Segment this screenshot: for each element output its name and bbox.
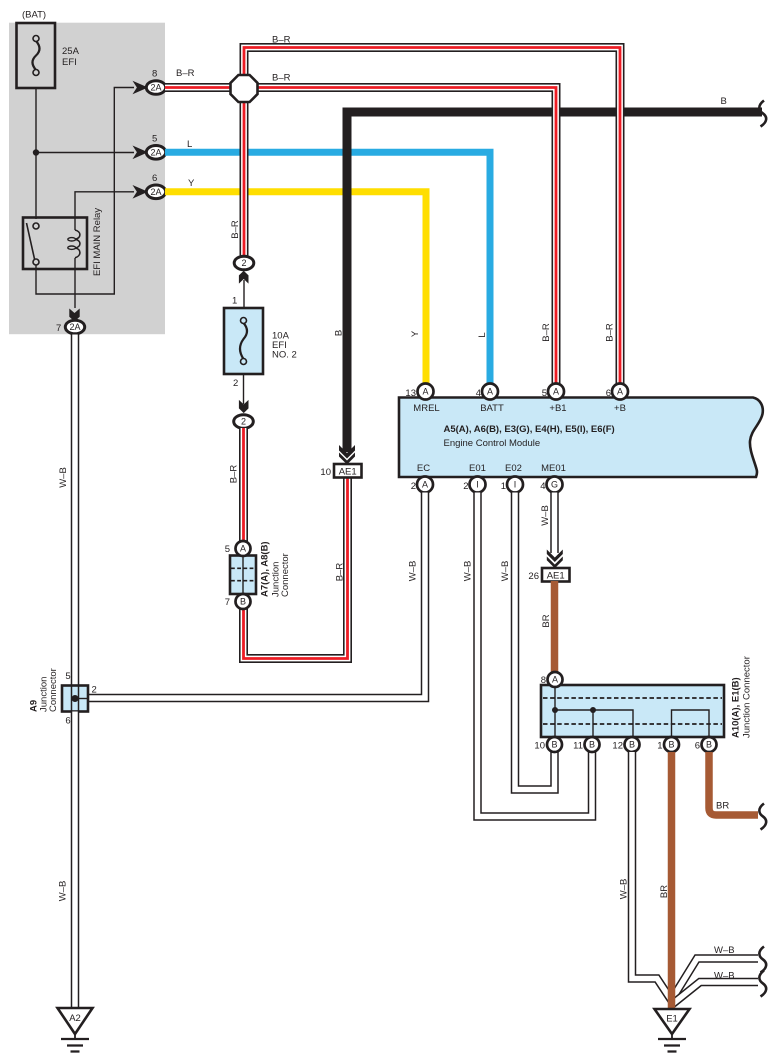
junction connector A9 bbox=[29, 668, 97, 726]
svg-text:2A: 2A bbox=[150, 147, 161, 157]
svg-text:B: B bbox=[240, 597, 246, 607]
svg-text:6: 6 bbox=[65, 716, 70, 727]
pin 6(B) bbox=[695, 737, 717, 752]
wire B black bbox=[347, 112, 762, 452]
svg-text:Connector: Connector bbox=[48, 668, 59, 712]
ECM box Engine Control Module bbox=[399, 398, 763, 478]
connector 2A pin 5 bbox=[133, 134, 166, 160]
svg-text:Engine Control Module: Engine Control Module bbox=[444, 438, 541, 449]
wire B-R junction A7 loop to AE1 bbox=[244, 477, 348, 659]
svg-text:BR: BR bbox=[659, 885, 670, 898]
svg-text:L: L bbox=[187, 139, 192, 150]
svg-text:B: B bbox=[334, 330, 345, 336]
pin 1(I) E02 bbox=[501, 477, 523, 493]
pin 2(A) EC bbox=[411, 477, 433, 493]
svg-text:Connector: Connector bbox=[280, 553, 291, 597]
svg-text:2: 2 bbox=[241, 417, 246, 427]
svg-text:BATT: BATT bbox=[480, 403, 504, 414]
label Y vertical bbox=[410, 330, 421, 337]
label B-R vertical +B1 bbox=[541, 323, 552, 342]
label W-B left upper bbox=[58, 467, 69, 488]
svg-text:A2: A2 bbox=[69, 1013, 81, 1024]
fuse 10A EFI NO. 2 bbox=[224, 308, 297, 374]
label B horizontal bbox=[721, 96, 727, 107]
svg-text:B: B bbox=[706, 740, 712, 750]
label B-R pin8 bbox=[176, 68, 195, 79]
ground A2 bbox=[58, 1008, 93, 1052]
svg-text:11: 11 bbox=[573, 741, 583, 752]
svg-text:B–R: B–R bbox=[229, 465, 240, 484]
label BR AE1 bbox=[541, 614, 552, 627]
wire BR pin 6 to right bbox=[709, 752, 758, 815]
connector AE1 pin 10 bbox=[320, 445, 361, 478]
squiggle W-B lower end bbox=[759, 971, 766, 997]
label W-B E01 bbox=[463, 561, 474, 582]
connector AE1 pin 26 bbox=[528, 550, 569, 583]
node (BAT) label bbox=[22, 10, 46, 21]
junction connector A10(A) E1(B) bbox=[541, 656, 753, 738]
svg-text:1: 1 bbox=[501, 481, 506, 492]
label BR right bbox=[716, 801, 729, 812]
svg-text:(BAT): (BAT) bbox=[22, 10, 46, 21]
svg-text:W–B: W–B bbox=[500, 561, 511, 582]
wire relay switch to connector 2A pin 8 bbox=[36, 88, 134, 295]
label B-R vertical below fuse bbox=[229, 465, 240, 484]
svg-text:Y: Y bbox=[188, 178, 195, 189]
svg-text:I: I bbox=[476, 480, 479, 490]
svg-text:W–B: W–B bbox=[408, 561, 419, 582]
svg-text:A10(A), E1(B): A10(A), E1(B) bbox=[731, 677, 742, 738]
label W-B right lower bbox=[714, 971, 735, 982]
svg-text:B: B bbox=[721, 96, 727, 107]
label BR pin1 bbox=[659, 885, 670, 898]
pin 10(B) bbox=[534, 737, 562, 752]
svg-text:2: 2 bbox=[233, 378, 238, 389]
wire dot to connector 2A pin 5 bbox=[36, 152, 134, 154]
svg-text:5: 5 bbox=[152, 134, 157, 145]
svg-text:B: B bbox=[551, 740, 557, 750]
svg-text:B–R: B–R bbox=[335, 563, 346, 582]
svg-text:W–B: W–B bbox=[463, 561, 474, 582]
pin 6(A) +B bbox=[606, 384, 628, 400]
squiggle W-B upper end bbox=[759, 947, 766, 973]
svg-text:EFI MAIN Relay: EFI MAIN Relay bbox=[92, 208, 103, 276]
junction octagon bbox=[231, 75, 258, 102]
connector 2A pin 6 bbox=[133, 173, 166, 199]
svg-text:A: A bbox=[487, 387, 493, 397]
svg-text:AE1: AE1 bbox=[547, 571, 565, 582]
svg-text:+B: +B bbox=[614, 403, 626, 414]
svg-text:G: G bbox=[551, 480, 558, 490]
connector 2 upper bbox=[232, 256, 254, 308]
wire B-R octagon top to +B bbox=[244, 48, 620, 385]
svg-text:I: I bbox=[514, 480, 517, 490]
pin 4(G) ME01 bbox=[540, 477, 562, 493]
svg-text:A: A bbox=[553, 387, 559, 397]
wire relay coil bottom to pin 7 bbox=[74, 258, 76, 308]
svg-text:2A: 2A bbox=[69, 322, 80, 332]
svg-text:12: 12 bbox=[612, 741, 623, 752]
label B-R vertical AE1 loop bbox=[335, 563, 346, 582]
svg-text:6: 6 bbox=[606, 388, 611, 399]
wire B-R pin8 to octagon bbox=[165, 83, 232, 92]
svg-text:W–B: W–B bbox=[619, 879, 630, 900]
svg-text:BR: BR bbox=[716, 801, 729, 812]
svg-text:B–R: B–R bbox=[230, 220, 241, 239]
connector 2A pin 8 bbox=[133, 69, 166, 95]
svg-text:L: L bbox=[477, 332, 488, 337]
node junction dot battery feed bbox=[33, 149, 39, 155]
svg-text:Junction Connector: Junction Connector bbox=[742, 656, 753, 738]
svg-text:A: A bbox=[552, 675, 558, 685]
wire W-B EC to A9 bbox=[88, 493, 425, 699]
svg-text:W–B: W–B bbox=[58, 881, 69, 902]
svg-text:2A: 2A bbox=[150, 187, 161, 197]
svg-text:5: 5 bbox=[225, 544, 230, 555]
svg-text:A7(A), A8(B): A7(A), A8(B) bbox=[260, 541, 271, 597]
harness shaded box bbox=[9, 23, 165, 335]
wire BR pin 1 to ground E1 bbox=[668, 752, 676, 1010]
svg-text:2: 2 bbox=[92, 685, 97, 696]
svg-text:W–B: W–B bbox=[714, 971, 735, 982]
squiggle B wire end bbox=[759, 101, 766, 127]
svg-text:MREL: MREL bbox=[413, 403, 439, 414]
svg-text:B–R: B–R bbox=[176, 68, 195, 79]
svg-text:4: 4 bbox=[540, 481, 545, 492]
svg-text:B–R: B–R bbox=[605, 323, 616, 342]
wire W-B right upper bbox=[672, 959, 758, 1000]
pin 12(B) bbox=[612, 737, 639, 752]
pin 11(B) bbox=[573, 737, 599, 752]
wire W-B E01 to pin 11 bbox=[478, 493, 593, 817]
svg-text:7: 7 bbox=[56, 323, 61, 334]
label B-R vertical fuse chain bbox=[230, 220, 241, 239]
wire L blue bbox=[165, 152, 490, 384]
label W-B EC bbox=[408, 561, 419, 582]
svg-text:10: 10 bbox=[534, 741, 545, 752]
svg-text:2: 2 bbox=[463, 481, 468, 492]
junction connector A7(A) A8(B) bbox=[230, 541, 291, 597]
label Y horizontal bbox=[188, 178, 195, 189]
wire W-B right lower bbox=[673, 982, 759, 1004]
svg-text:7: 7 bbox=[225, 597, 230, 608]
wire fuse to relay switch bbox=[35, 88, 37, 219]
svg-text:BR: BR bbox=[541, 614, 552, 627]
relay EFI MAIN Relay bbox=[23, 208, 103, 276]
svg-text:2: 2 bbox=[411, 481, 416, 492]
pin 8(A) of A10 bbox=[541, 672, 563, 687]
svg-text:10: 10 bbox=[320, 467, 331, 478]
wire W-B A9 to ground A2 bbox=[71, 712, 80, 1009]
svg-text:26: 26 bbox=[528, 571, 539, 582]
label L vertical bbox=[477, 332, 488, 337]
pin 5(A) of A7 bbox=[225, 541, 251, 556]
svg-text:B: B bbox=[668, 740, 674, 750]
ground E1 bbox=[655, 1009, 690, 1052]
wire W-B 2A7 to A9 bbox=[71, 335, 80, 687]
label B-R vertical +B bbox=[605, 323, 616, 342]
pin 7(B) of A8 bbox=[225, 594, 251, 609]
svg-text:W–B: W–B bbox=[540, 505, 551, 526]
svg-text:A: A bbox=[240, 544, 246, 554]
squiggle BR wire end bbox=[759, 804, 766, 830]
wire coil top to connector 2A pin 6 bbox=[75, 192, 134, 230]
svg-text:1: 1 bbox=[232, 296, 237, 307]
svg-text:AE1: AE1 bbox=[339, 467, 357, 478]
svg-text:B–R: B–R bbox=[272, 35, 291, 46]
svg-text:1: 1 bbox=[657, 741, 662, 752]
svg-text:+B1: +B1 bbox=[549, 403, 566, 414]
svg-text:W–B: W–B bbox=[714, 945, 735, 956]
svg-text:8: 8 bbox=[152, 69, 157, 80]
svg-text:8: 8 bbox=[541, 675, 546, 686]
wire B-R octagon down to fuse connector bbox=[240, 80, 249, 257]
svg-text:B: B bbox=[589, 740, 595, 750]
fuse 25A EFI bbox=[17, 23, 80, 88]
label B-R top bbox=[272, 35, 291, 46]
svg-text:5: 5 bbox=[542, 388, 547, 399]
svg-text:W–B: W–B bbox=[58, 467, 69, 488]
svg-text:4: 4 bbox=[476, 388, 481, 399]
svg-text:A5(A), A6(B), E3(G), E4(H), E5: A5(A), A6(B), E3(G), E4(H), E5(I), E6(F) bbox=[444, 424, 615, 435]
pin 1(B) bbox=[657, 737, 679, 752]
label W-B left lower bbox=[58, 881, 69, 902]
svg-text:EC: EC bbox=[417, 463, 430, 474]
label W-B ME01 bbox=[540, 505, 551, 526]
svg-text:ME01: ME01 bbox=[541, 463, 566, 474]
svg-text:E02: E02 bbox=[505, 463, 522, 474]
svg-text:6: 6 bbox=[152, 173, 157, 184]
svg-text:5: 5 bbox=[65, 671, 70, 682]
svg-text:25A: 25A bbox=[62, 46, 80, 57]
label L horizontal bbox=[187, 139, 192, 150]
wire W-B ME01 to AE1 bbox=[550, 493, 559, 554]
svg-text:EFI: EFI bbox=[62, 57, 77, 68]
label W-B E02 bbox=[500, 561, 511, 582]
svg-text:B: B bbox=[629, 740, 635, 750]
pin 13(A) MREL bbox=[405, 384, 433, 400]
label W-B pin12 bbox=[619, 879, 630, 900]
label W-B right upper bbox=[714, 945, 735, 956]
svg-text:Y: Y bbox=[410, 330, 421, 337]
svg-text:B–R: B–R bbox=[272, 73, 291, 84]
label B-R mid bbox=[272, 73, 291, 84]
svg-text:NO. 2: NO. 2 bbox=[272, 350, 297, 361]
wire Y yellow bbox=[165, 192, 426, 384]
pin 2(I) E01 bbox=[463, 477, 485, 493]
wire W-B E02 to pin 10 bbox=[515, 493, 555, 790]
svg-text:B–R: B–R bbox=[541, 323, 552, 342]
svg-text:A: A bbox=[617, 387, 623, 397]
svg-text:E01: E01 bbox=[469, 463, 486, 474]
svg-text:6: 6 bbox=[695, 741, 700, 752]
svg-text:13: 13 bbox=[405, 388, 416, 399]
svg-text:E1: E1 bbox=[666, 1014, 678, 1025]
svg-text:2A: 2A bbox=[150, 83, 161, 93]
pin 4(A) BATT bbox=[476, 384, 498, 400]
connector 2 lower bbox=[233, 374, 253, 428]
pin 5(A) +B1 bbox=[542, 384, 564, 400]
wire B-R octagon to +B1 bbox=[256, 88, 556, 385]
wire BR AE1 to pin 8A bbox=[551, 581, 559, 673]
svg-text:2: 2 bbox=[241, 258, 246, 268]
wire B-R connector2 to junction A7 bbox=[239, 428, 248, 542]
svg-text:A: A bbox=[422, 480, 428, 490]
svg-text:A: A bbox=[422, 387, 428, 397]
label B vertical bbox=[334, 330, 345, 336]
connector 2A pin 7 bbox=[56, 309, 85, 335]
wire W-B pin 12 to ground E1 bbox=[632, 752, 673, 1002]
